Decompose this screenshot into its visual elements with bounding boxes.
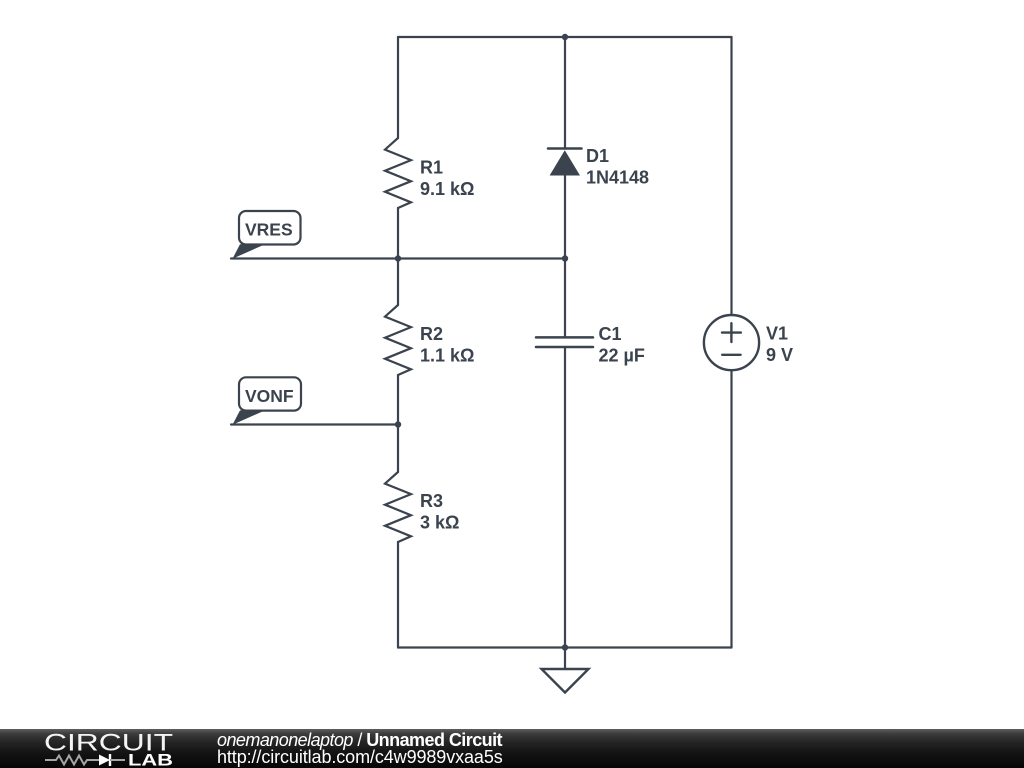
svg-text:9 V: 9 V [766,345,793,365]
node flag VONF [233,377,302,424]
resistor R3 [385,472,411,542]
wire node to R3 [397,425,399,473]
CircuitLab logo [0,729,190,768]
wire ground stub [564,648,566,670]
wire top rail [398,36,732,38]
voltage source V1 circle [704,315,759,370]
wire R2 to VONF node [397,375,399,425]
ground symbol [542,669,589,693]
resistor R1 [385,138,411,208]
node junction VRES-middle rail [562,255,568,261]
footer bar [0,729,1024,768]
svg-text:22 µF: 22 µF [599,346,645,366]
node junction VRES-left rail [395,255,401,261]
svg-text:D1: D1 [586,146,609,166]
node junction top [562,34,568,40]
svg-text:VONF: VONF [245,386,294,406]
node junction bottom [562,644,568,650]
wire C1 to bottom rail [564,347,566,648]
wire node to R2 [397,259,399,306]
footer credit text [217,732,503,766]
node junction VONF [395,421,401,427]
svg-text:V1: V1 [766,324,788,344]
node flag VRES [233,211,301,259]
svg-text:9.1 kΩ: 9.1 kΩ [420,179,474,199]
wire top lead of D1 [564,37,566,149]
wire R3 to bottom rail [397,542,399,648]
svg-text:3 kΩ: 3 kΩ [420,513,459,533]
diode D1 triangle [550,150,580,175]
wire top lead of V1 [730,37,732,315]
resistor R2 [385,305,411,375]
wire VRES horizontal [231,257,565,259]
wire bottom rail [398,646,732,648]
diode D1 cathode bar [548,147,582,150]
svg-text:R1: R1 [420,157,443,177]
wire node to C1 [564,259,566,338]
svg-text:LAB: LAB [128,750,173,768]
wire R1 to VRES node [397,208,399,259]
V1 plus sign [722,331,741,333]
logo resistor squiggle [45,755,99,764]
logo diode [99,754,110,765]
V1 minus sign [722,354,740,356]
wire left rail upper lead of R1 [397,37,399,138]
svg-text:R3: R3 [420,491,443,511]
capacitor C1 bottom plate [536,346,593,349]
wire V1 to bottom rail [730,370,732,647]
svg-text:C1: C1 [599,324,622,344]
svg-text:1.1 kΩ: 1.1 kΩ [420,345,474,365]
svg-text:VRES: VRES [245,220,293,240]
capacitor C1 top plate [536,336,593,339]
svg-text:1N4148: 1N4148 [586,168,649,188]
wire VONF horizontal [231,423,398,425]
wire D1 to VRES node [564,176,566,259]
svg-text:R2: R2 [420,324,443,344]
